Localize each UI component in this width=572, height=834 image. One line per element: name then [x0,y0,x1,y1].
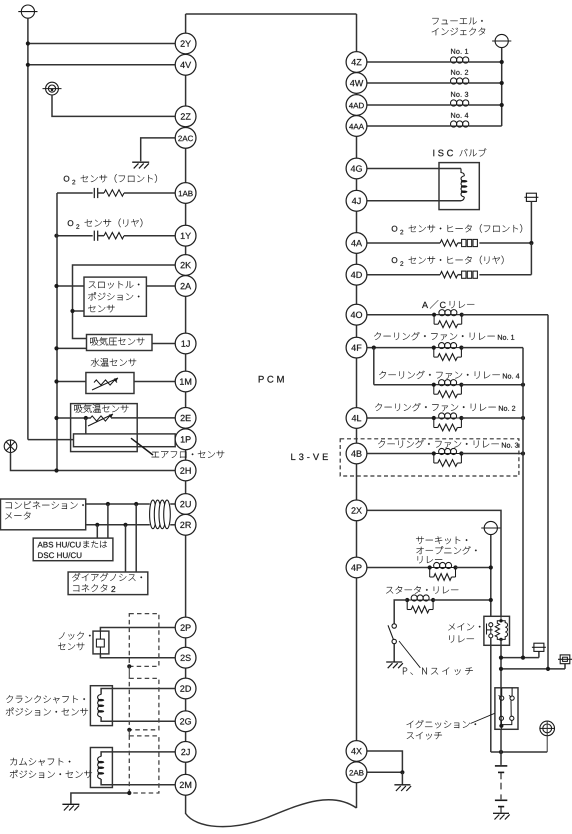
wire knock sensor to pin 2S [100,654,175,658]
ground for 4X 2AB [394,785,411,791]
PCM pin 2P [175,617,196,638]
wire pin 2AC to ground [141,138,176,161]
label fuel injector [432,18,485,36]
PCM pin 4G [346,158,367,179]
cooling fan relay No. 4 [374,380,525,398]
PCM pin 4J [346,190,367,211]
PCM pin 1Y [175,225,196,246]
PCM pin 2J [175,742,196,763]
battery junction node [491,750,547,754]
diagnosis connector box [68,572,148,595]
airflow sensor inner box [74,434,176,447]
ISC valve box with solenoid coil [439,163,479,210]
injector No. 3 coil and wires [367,92,504,107]
PCM pin 2K [175,255,196,276]
circuit opening relay on 4P row [367,562,493,580]
PCM pin 1J [175,333,196,354]
PCM pin 2S [175,647,196,668]
PCM pin 2E [175,408,196,429]
wire crank sensor to pin 2D [101,689,175,695]
label cooling fan relay No. 2 [375,403,515,411]
PCM pin 1P [175,429,196,450]
thermistor intake air temp [88,414,113,426]
battery feed symbol injectors [492,34,511,47]
O2 heater rear resistor and coil on 4D row [367,243,532,278]
label crankshaft position sensor [6,695,88,715]
injector No. 4 coil and wires [367,113,502,127]
wire pin 2K to sensors [70,265,175,339]
PCM pin 2M [175,774,196,795]
PCM pin 2D [175,678,196,699]
PCM pin 4AD [346,95,367,116]
PCM pin 4D [346,264,367,285]
cooling fan relay No. 2 [367,413,525,431]
PCM pin 2Z [175,106,196,127]
PCM pin 2AC [175,127,196,148]
label L3-VE [291,454,328,461]
label O2 sensor front [64,174,157,184]
junction 4F to relay No4 [372,346,376,385]
ground for battery [493,813,510,819]
throttle position sensor box [84,277,146,316]
wire to pin 2Y [26,41,175,45]
main relay box [484,616,510,645]
label A/C relay [422,300,474,309]
ignition-feed line vertical [490,535,492,617]
shield box knock sensor [127,614,159,669]
PCM pin 2R [175,514,196,535]
wires below main relay [491,638,501,752]
PCM pin 2U [175,494,196,515]
ground for shields [62,804,79,810]
label starter relay [386,586,458,594]
wire bus B to 2E row [54,416,90,420]
label camshaft position sensor [10,758,92,778]
label water temp sensor [91,358,136,366]
shield box cam sensor [129,730,159,793]
wire thermistor to pin 2E [112,417,175,419]
wire bus A vertical [28,18,74,439]
PCM pin 2H [175,460,196,481]
PCM pin 4X [346,741,367,762]
wire shield drain to ground [71,791,132,804]
PCM pin 4V [175,54,196,75]
wire to pin 4V [26,63,175,67]
A/C relay on 4O row [367,310,548,328]
O2 sensor front capacitor and resistor on 1AB row [57,188,175,198]
label P N switch with callout [399,641,473,675]
cooling fan relay No. 3 [367,448,525,466]
junction row fuse feed 2 [499,655,572,671]
PCM pin 4L [346,408,367,429]
A/C relay bus down [547,315,549,669]
battery feed symbol top-left [18,5,37,18]
knock sensor box [93,631,109,654]
injector No. 2 coil and wires [367,70,504,85]
label airflow sensor with callout [131,438,224,458]
label knock sensor [58,632,91,650]
wires pins 4X 2AB to ground [367,751,405,784]
wire lamp to pin 2H [11,453,176,473]
label cooling fan relay No. 3 [378,440,518,448]
label cooling fan relay No. 1 [374,332,514,340]
combination meter box [1,499,86,530]
water temp sensor box with thermistor [86,373,134,394]
wire bus B sensor common [56,193,58,471]
PCM pin 1M [175,371,196,392]
injector bus vertical [501,48,503,126]
ABS HU/CU box [33,538,113,561]
L3-VE dashed box [340,439,519,476]
wire water temp sensor to pin 1M [134,381,175,383]
PCM pin 2AB [346,762,367,783]
wire meter to pin 2R [86,523,176,527]
wire pin 4G to ISC valve [367,168,461,170]
PCM pin 4P [346,557,367,578]
PCM pin 4F [346,337,367,358]
intake pressure sensor box [87,335,153,351]
wire cam sensor to pin 2M [101,779,175,785]
PCM module outline [186,14,357,827]
crankshaft position sensor box with coil [90,686,112,726]
injector No. 1 coil and wires [367,49,504,64]
battery feed symbol circuit opening relay [481,521,500,534]
PCM pin 2A [175,276,196,297]
PCM pin 2G [175,711,196,732]
grommet symbol [43,82,62,95]
starter relay [405,595,493,613]
shield box crank sensor [127,666,159,732]
wire meter to pin 2U with harness curl [86,502,176,506]
label main relay [448,623,480,642]
O2 heater front resistor and coil on 4A row [367,239,534,246]
wire knock sensor to pin 2P [100,628,175,632]
wire bus B to pressure sensor [54,346,86,350]
PCM pin 4O [346,304,367,325]
PCM pin 2Y [175,33,196,54]
wire bus B to throttle sensor [54,284,84,288]
fan relay bus down [522,348,524,658]
wire throttle sensor to pin 2A [146,285,175,287]
camshaft position sensor box with coil [90,748,112,788]
label O2 sensor rear [68,219,143,229]
O2 sensor rear capacitor and resistor on 1Y row [54,231,175,241]
junction row fuse feed 1 [499,643,546,660]
wires rows to diagnosis connector [126,504,137,572]
label ignition switch with callout [407,713,495,739]
intake air temp sensor box [71,404,138,452]
wire starter relay to P N switch [394,600,407,624]
wires 2U 2R rows to ABS box [97,504,108,538]
label cooling fan relay No. 4 [379,371,519,379]
wire pin 2X to main relay coil [367,510,501,616]
accessory feed symbol [539,721,555,752]
label O2 heater front [392,224,522,234]
PCM pin 2X [346,500,367,521]
ignition switch box [495,688,518,730]
PCM label [259,376,284,383]
cooling fan relay No. 1 [367,343,523,361]
harness curl symbol [150,500,171,529]
wire pressure sensor to pin 1J [152,343,175,345]
battery symbol [495,729,507,813]
wire 2E node to airflow box [85,418,87,434]
label ISC valve [433,148,486,156]
label O2 heater rear [392,256,504,266]
PCM pin 4W [346,73,367,94]
ground for 2AC [132,162,149,168]
PCM pin 4A [346,233,367,254]
PCM pin 4AA [346,116,367,137]
wire ISC valve to pin 4J [367,200,461,202]
wire grommet to pin 2Z [52,95,175,116]
PCM pin 1AB [175,183,196,204]
label circuit opening relay [416,536,477,563]
ground for P N switch [386,662,403,668]
wire cam sensor to pin 2J [101,752,175,757]
P N switch [388,624,396,662]
PCM pin 4Z [346,52,367,73]
wire bus B to water temp sensor [54,379,86,383]
MIL lamp symbol [4,440,17,453]
fuse for O2 heaters [524,193,538,243]
wire crank sensor to pin 2G [101,717,175,721]
PCM pin 4B [346,443,367,464]
